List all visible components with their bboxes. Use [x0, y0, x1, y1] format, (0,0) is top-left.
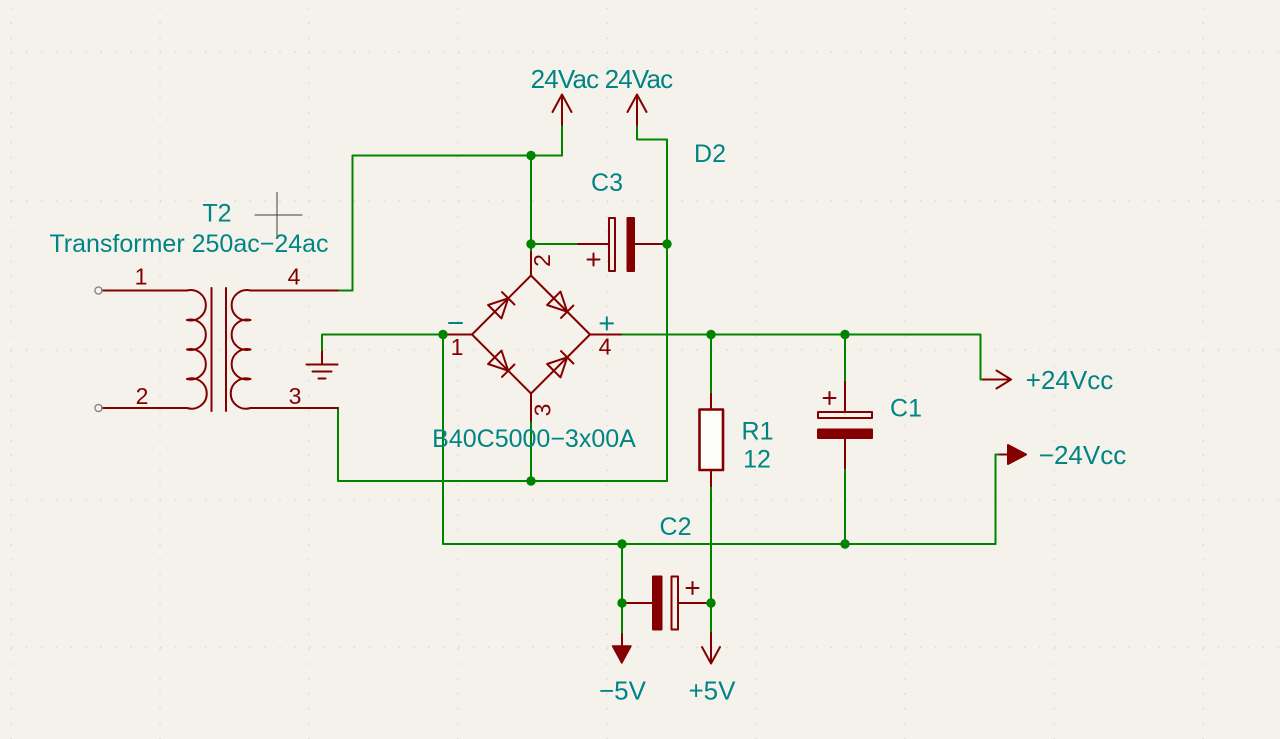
svg-text:C2: C2 — [660, 513, 692, 541]
svg-text:R1: R1 — [742, 418, 774, 446]
junction dots — [438, 151, 849, 608]
svg-text:2: 2 — [136, 383, 149, 409]
wire R1 bottom to C2 right — [710, 485, 712, 603]
svg-text:D2: D2 — [694, 140, 726, 168]
bridge plus sign — [601, 317, 614, 329]
wire bridge pin2 vertical — [530, 156, 532, 253]
svg-text:C3: C3 — [591, 169, 623, 197]
svg-text:1: 1 — [451, 334, 464, 360]
svg-text:T2: T2 — [202, 200, 231, 228]
hier label arrow 24Vac #2 — [628, 95, 647, 126]
svg-text:1: 1 — [135, 264, 148, 290]
power arrow -5V stem — [621, 634, 623, 647]
wire bridge pin1 down to bottom rail — [443, 335, 996, 545]
capacitor C3 — [578, 218, 665, 271]
svg-text:3: 3 — [289, 383, 302, 409]
wire -5V stem — [621, 603, 623, 634]
hier label arrow +5V — [702, 633, 720, 664]
wire T2 pin3 to bottom net — [338, 408, 667, 481]
power arrow -5V (filled) — [613, 646, 632, 663]
capacitor C2 — [624, 577, 709, 630]
hier label arrow +24Vcc — [983, 371, 1011, 389]
wire -24Vcc riser — [996, 455, 1001, 545]
svg-text:+24Vcc: +24Vcc — [1026, 365, 1113, 395]
wire 24Vac arrow1 stem lower — [561, 125, 563, 156]
svg-text:C1: C1 — [890, 395, 922, 423]
svg-text:2: 2 — [529, 254, 555, 267]
svg-text:3: 3 — [530, 404, 556, 417]
wire C1 bottom — [844, 468, 846, 544]
ground — [307, 352, 338, 379]
wire ground to bridge pin1 — [322, 335, 444, 352]
T2 pin1 open end — [95, 287, 102, 294]
svg-text:12: 12 — [743, 446, 771, 474]
svg-text:−5V: −5V — [599, 676, 647, 706]
svg-text:B40C5000−3x00A: B40C5000−3x00A — [432, 425, 636, 453]
svg-text:4: 4 — [288, 264, 301, 290]
wire bridge pin4 to +24Vcc rail — [621, 335, 983, 380]
wire C1 top — [844, 335, 846, 383]
svg-text:Transformer 250ac−24ac: Transformer 250ac−24ac — [49, 230, 328, 258]
svg-text:4: 4 — [599, 334, 612, 360]
hier label arrow 24Vac #1 — [553, 95, 572, 126]
T2 pin2 open end — [95, 404, 102, 411]
wire R1 top — [710, 335, 712, 395]
wire C2 left drop — [621, 544, 623, 603]
svg-text:−24Vcc: −24Vcc — [1039, 440, 1126, 470]
wire C3 left — [531, 243, 578, 245]
wire T2 pin4 to 24Vac/bridge top — [338, 156, 562, 291]
wire 24Vac arrow2 to C3 right vertical — [637, 125, 667, 481]
svg-text:+5V: +5V — [689, 676, 737, 706]
resistor R1 — [700, 394, 724, 486]
transformer T2 — [102, 288, 338, 411]
bridge rectifier D2 — [444, 252, 621, 421]
capacitor C1 — [818, 382, 872, 468]
hier label arrow -24Vcc (filled) — [1000, 445, 1026, 464]
svg-text:24Vac: 24Vac — [605, 64, 674, 94]
svg-text:24Vac: 24Vac — [531, 64, 600, 94]
bridge minus sign — [449, 322, 462, 324]
wire bridge pin3 stem — [530, 419, 532, 481]
wire +5V stem — [710, 603, 712, 633]
cursor crosshair — [255, 193, 302, 238]
